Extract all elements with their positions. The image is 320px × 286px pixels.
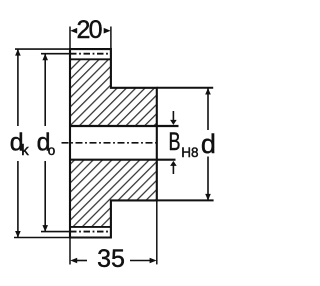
arrow 35 right bbox=[130, 258, 157, 264]
tip line bottom extension (dk) bbox=[14, 237, 70, 239]
svg-text:o: o bbox=[48, 143, 56, 158]
dimension line d bbox=[205, 88, 211, 200]
gear outline bbox=[70, 49, 157, 237]
dimension B arrows bbox=[170, 111, 177, 174]
pitch line top extension bbox=[41, 53, 70, 55]
svg-text:35: 35 bbox=[97, 245, 125, 273]
arrow 20 left bbox=[70, 28, 77, 34]
bore top line bbox=[70, 125, 179, 127]
extension line 20 right bbox=[110, 27, 112, 50]
extension line d top bbox=[157, 87, 213, 89]
hatching lower section bbox=[70, 160, 157, 227]
extension line 35 left bbox=[69, 238, 71, 265]
hatching upper section bbox=[70, 59, 157, 126]
root line top bbox=[70, 58, 111, 60]
tip line top extension (dk) bbox=[15, 48, 70, 50]
dimension line dk bbox=[15, 49, 21, 237]
svg-text:20: 20 bbox=[77, 16, 103, 44]
svg-text:B: B bbox=[169, 127, 181, 156]
svg-text:H8: H8 bbox=[181, 145, 198, 160]
bore bottom line bbox=[70, 159, 176, 161]
pitch line bottom extension bbox=[41, 231, 70, 233]
svg-text:d: d bbox=[201, 129, 216, 159]
svg-text:k: k bbox=[21, 142, 29, 159]
centerline axis dash-dot bbox=[62, 142, 157, 144]
extension line 35 right bbox=[156, 200, 158, 264]
pitch line top dash-dot bbox=[70, 53, 111, 55]
pitch line bottom dash-dot bbox=[70, 231, 111, 233]
extension line d bottom bbox=[157, 199, 214, 201]
arrow 35 left bbox=[70, 258, 87, 264]
root line bottom bbox=[70, 226, 111, 228]
dimension line do bbox=[42, 54, 48, 232]
arrow 20 right bbox=[104, 28, 111, 34]
extension line 20 left bbox=[69, 27, 71, 49]
